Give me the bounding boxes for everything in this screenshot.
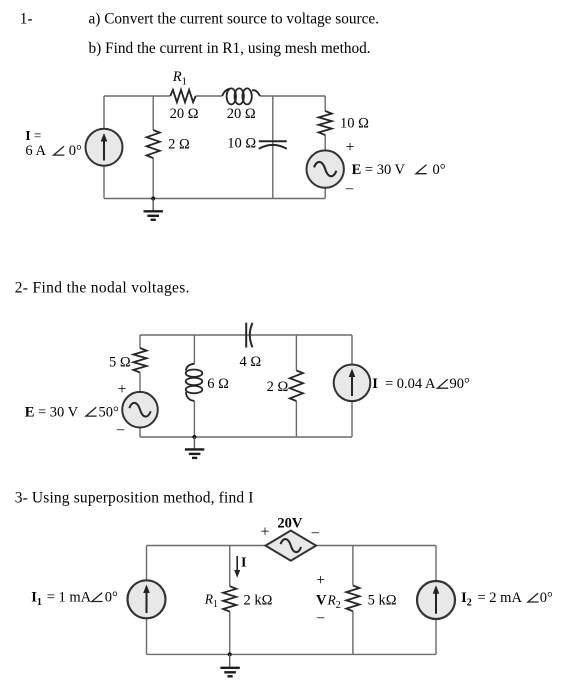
label plus R2	[316, 572, 325, 589]
svg-text:R1: R1	[204, 592, 218, 611]
svg-text:4 Ω: 4 Ω	[240, 354, 262, 370]
label 20 ohm under R1	[170, 106, 199, 122]
label minus circuit 1 source	[345, 181, 354, 197]
current source I circuit 2	[334, 365, 371, 402]
svg-text:20V: 20V	[277, 515, 303, 531]
label R1	[172, 69, 187, 88]
wire bottom circuit 3	[147, 653, 437, 655]
label I2 = 2 mA angle 0	[461, 590, 553, 609]
svg-text:–: –	[316, 610, 325, 626]
svg-text:5 Ω: 5 Ω	[109, 355, 131, 371]
problem 1 heading line b	[89, 40, 371, 57]
label I = 6 A angle 0	[25, 128, 82, 159]
voltage source E circuit 1	[307, 150, 344, 187]
label 20 ohm under inductor	[227, 106, 256, 122]
svg-text:2 Ω: 2 Ω	[267, 379, 289, 395]
svg-text:I2: I2	[461, 590, 472, 609]
svg-text:I: I	[372, 376, 378, 392]
svg-text:50°: 50°	[99, 404, 120, 420]
svg-text:–: –	[116, 422, 125, 438]
current source I2 circuit 3	[417, 581, 455, 619]
svg-text:I1: I1	[31, 590, 42, 609]
label V R2	[316, 593, 341, 612]
svg-text:R1: R1	[172, 69, 187, 88]
wire top circuit 1	[104, 95, 325, 97]
svg-text:= 1 mA: = 1 mA	[47, 590, 92, 606]
wire left branch circuit 2	[139, 335, 141, 437]
wire left branch circuit 1	[103, 96, 105, 199]
label 10 ohm capacitor	[227, 136, 256, 152]
svg-text:+: +	[316, 572, 325, 589]
svg-text:–: –	[311, 525, 320, 541]
svg-text:= 0.04 A: = 0.04 A	[385, 376, 436, 392]
label 6 ohm	[207, 376, 229, 392]
svg-text:5 kΩ: 5 kΩ	[368, 593, 397, 609]
label E = 30 V angle 50	[25, 404, 119, 420]
label 2 ohm	[168, 137, 190, 153]
resistor 2-ohm circuit 1	[147, 130, 160, 158]
svg-text:3- Using superposition method,: 3- Using superposition method, find I	[15, 490, 254, 507]
ground circuit 3	[220, 654, 239, 676]
label 20V	[277, 515, 303, 531]
ground circuit 2	[185, 437, 204, 458]
label 5 kohm	[368, 593, 397, 609]
wire 2-ohm branch circuit 1	[152, 96, 154, 199]
voltage source E circuit 2	[122, 392, 158, 428]
svg-text:I =: I =	[25, 128, 41, 143]
inductor 20-ohm circuit 1	[222, 88, 260, 104]
svg-text:E = 30 V: E = 30 V	[25, 404, 79, 420]
svg-text:a) Convert the current source: a) Convert the current source to voltage…	[89, 10, 380, 27]
wire left branch circuit 3	[146, 546, 148, 655]
svg-text:20 Ω: 20 Ω	[170, 106, 199, 122]
label plus diamond	[260, 523, 269, 540]
label plus source 2	[117, 381, 126, 398]
wire R2 branch circuit 3	[352, 546, 354, 655]
wire bottom circuit 2	[140, 436, 352, 438]
svg-text:+: +	[117, 381, 126, 398]
current source I1 circuit 3	[128, 580, 166, 618]
svg-text:b) Find the current in R1, usi: b) Find the current in R1, using mesh me…	[89, 40, 371, 57]
resistor R2 circuit 3	[346, 585, 359, 611]
svg-text:90°: 90°	[450, 376, 471, 392]
dependent source diamond 20V	[266, 531, 317, 561]
wire capacitor branch circuit 1	[272, 96, 274, 199]
svg-text:6 A: 6 A	[25, 143, 46, 159]
resistor R1 circuit 1	[170, 90, 195, 102]
label E = 30 V angle 0	[352, 162, 446, 178]
svg-text:0°: 0°	[433, 162, 446, 178]
svg-text:+: +	[345, 139, 354, 156]
label I arrow	[241, 556, 246, 571]
resistor 2-ohm circuit 2	[290, 371, 303, 402]
junction dot ground 1	[151, 197, 155, 201]
svg-text:10 Ω: 10 Ω	[340, 115, 369, 131]
problem 1 heading line a	[20, 10, 379, 27]
label minus diamond	[311, 525, 320, 541]
wire inductor branch circuit 2	[193, 335, 195, 437]
label 10 ohm resistor right	[340, 115, 369, 131]
resistor 5-ohm circuit 2	[133, 348, 146, 373]
svg-text:V: V	[316, 593, 327, 609]
wire right branch circuit 1	[324, 96, 326, 199]
junction dot ground 2	[192, 435, 196, 439]
svg-text:–: –	[345, 181, 354, 197]
label minus source 2	[116, 422, 125, 438]
label 4 ohm	[240, 354, 262, 370]
label I1 = 1 mA angle 0	[31, 590, 118, 609]
problem 3 heading	[15, 490, 254, 507]
svg-text:= 2 mA: = 2 mA	[478, 590, 523, 606]
current source I circuit 1	[86, 129, 123, 166]
label 2 kohm	[244, 593, 273, 609]
label plus circuit 1 source	[345, 139, 354, 156]
wire right branch circuit 2	[351, 335, 353, 437]
svg-text:10 Ω: 10 Ω	[227, 136, 256, 152]
svg-text:0°: 0°	[540, 590, 553, 606]
wire top circuit 3	[147, 545, 437, 547]
resistor R1 circuit 3	[223, 586, 236, 611]
junction dot ground 3	[228, 652, 232, 656]
wire 2-ohm branch circuit 2	[295, 335, 297, 437]
label R1 circuit 3	[204, 592, 218, 611]
svg-text:6 Ω: 6 Ω	[207, 376, 229, 392]
problem 2 heading	[15, 280, 190, 297]
label minus R2	[316, 610, 325, 626]
svg-text:+: +	[260, 523, 269, 540]
svg-text:R2: R2	[327, 593, 341, 612]
svg-text:I: I	[241, 556, 246, 571]
svg-text:0°: 0°	[105, 590, 118, 606]
svg-text:1-: 1-	[20, 10, 33, 27]
capacitor 4-ohm circuit 2	[246, 323, 252, 348]
label 2 ohm circuit 2	[267, 379, 289, 395]
wire right branch circuit 3	[435, 546, 437, 655]
wire top circuit 2	[140, 334, 352, 336]
inductor 6-ohm circuit 2	[186, 364, 203, 401]
wire bottom circuit 1	[104, 198, 325, 200]
svg-text:0°: 0°	[69, 143, 82, 159]
svg-text:2- Find the nodal voltages.: 2- Find the nodal voltages.	[15, 280, 190, 297]
resistor 10-ohm circuit 1 right	[319, 111, 332, 135]
svg-text:E = 30 V: E = 30 V	[352, 162, 406, 178]
label I = 0.04 A angle 90	[372, 376, 470, 392]
label 5 ohm	[109, 355, 131, 371]
svg-text:2 kΩ: 2 kΩ	[244, 593, 273, 609]
current arrow I	[234, 556, 240, 578]
svg-text:2 Ω: 2 Ω	[168, 137, 190, 153]
svg-text:20 Ω: 20 Ω	[227, 106, 256, 122]
wire R1 branch circuit 3	[229, 546, 231, 655]
ground circuit 1	[144, 199, 163, 220]
capacitor 10-ohm circuit 1	[259, 141, 287, 149]
